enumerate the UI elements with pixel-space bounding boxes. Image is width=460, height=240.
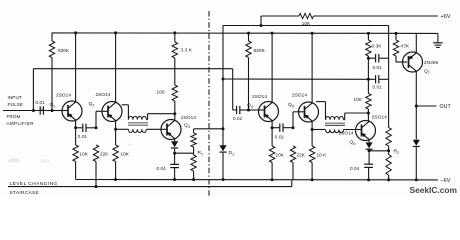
resistor R2 upper section (386, 128, 391, 147)
transformer T2 lower winding (326, 130, 344, 133)
transistor Q3 2SO14 (161, 120, 181, 140)
wire staircase output line (8, 186, 292, 188)
stage separator dash-dot line (208, 11, 210, 196)
wire R1 mid link (193, 147, 195, 155)
capacitor 0.04 stage1 (170, 163, 179, 165)
wire 22K-2 lead down (292, 163, 294, 180)
wire 0.04-2 to rail (368, 167, 370, 180)
svg-text:0.01: 0.01 (233, 116, 243, 121)
wire charge line y25 (223, 25, 389, 27)
svg-text:10K: 10K (121, 152, 130, 157)
transformer T2 upper winding (326, 117, 344, 120)
svg-text:0.04: 0.04 (157, 166, 167, 171)
node 10K-b rail dot (114, 178, 117, 181)
svg-text:STAIRCASE: STAIRCASE (10, 190, 40, 196)
wire R2 mid link (388, 146, 390, 155)
svg-text:10K: 10K (80, 152, 89, 157)
svg-text:22K: 22K (297, 153, 306, 158)
resistor 10K stage2-a (269, 146, 274, 163)
svg-text:47K: 47K (401, 44, 410, 49)
wire T2 secondary right lead (344, 129, 362, 131)
svg-text:3.3K: 3.3K (372, 44, 383, 49)
wire T1 secondary right lead (146, 128, 166, 130)
svg-text:2SO14: 2SO14 (181, 115, 196, 120)
transistor Q4 2SO14 (259, 102, 279, 122)
wire Q1 emitter drop (75, 120, 77, 145)
node base-riser junction stage1 (95, 126, 98, 129)
wire tap to 0.04 cap (174, 153, 176, 164)
resistor 47K lead (395, 33, 397, 40)
resistor 3.3K stage2 lead (367, 33, 369, 40)
wire OUT lead (416, 105, 436, 107)
capacitor 0.04 stage2 (364, 163, 373, 165)
svg-text:LEVEL CHANGING: LEVEL CHANGING (10, 181, 58, 187)
transformer T2 core (325, 122, 345, 124)
resistor 100 stage1 (172, 85, 177, 101)
wire stage feed line y68 (33, 68, 232, 70)
node R1 rail dot (192, 178, 195, 181)
resistor 47K (393, 40, 398, 56)
wire main ground rail (52, 32, 438, 35)
svg-text:2SO14: 2SO14 (96, 92, 111, 97)
wire 10K-a to rail (75, 162, 77, 180)
diode Q3 emitter diode (171, 141, 178, 147)
node D1 rail dot (222, 178, 225, 181)
node Q5 emitter/winding junction (311, 128, 314, 131)
wire Q2 emitter drop (115, 121, 117, 145)
wire diode to tap node (174, 149, 176, 154)
svg-text:OUT: OUT (440, 104, 452, 110)
node 47K rail dot (395, 32, 398, 35)
ground symbol stub (437, 33, 439, 42)
node 0.04 rail dot (173, 178, 176, 181)
svg-text:FROM: FROM (7, 114, 21, 119)
wire Q4 collector riser (271, 33, 273, 103)
svg-text:2SO14: 2SO14 (252, 94, 267, 99)
resistor 10K stage1-b (113, 145, 118, 162)
svg-text:0.01: 0.01 (373, 85, 383, 90)
resistor R1 lower section (191, 155, 196, 171)
node Q1 collector rail dot (74, 31, 77, 34)
wire 820K-2 to base node (248, 58, 250, 111)
node Q6 collector/winding junction (367, 112, 370, 115)
wire 22K lead to staircase line (95, 162, 97, 187)
node 10K-2b rail dot (311, 178, 314, 181)
wire Q6 diode to tap (368, 150, 370, 151)
wire T1 primary left lead (127, 105, 129, 120)
wire 820K to base node (51, 58, 53, 111)
node charge/cap-line junction (222, 78, 225, 81)
diode D1 (219, 145, 226, 151)
svg-text:2SO14: 2SO14 (339, 131, 354, 136)
resistor 820K stage1 (49, 41, 54, 58)
wire charge column x223 upper (222, 26, 224, 146)
node 820K-2 rail dot (247, 32, 250, 35)
svg-text:100: 100 (354, 97, 362, 102)
transistor Q6 2SO14 (356, 121, 376, 141)
transistor Q7 2N496 (403, 52, 423, 72)
svg-text:μ: μ (42, 106, 44, 110)
svg-text:820K: 820K (58, 48, 70, 53)
wire -6V bottom rail (76, 179, 438, 181)
node Q1 emitter/cap junction (74, 126, 77, 129)
node R2 tap dot (387, 149, 390, 152)
transformer T1 lower winding (128, 129, 146, 132)
wire Q4 emitter drop (271, 121, 273, 146)
wire Q7 collector drop (415, 71, 417, 140)
node 22K-1/staircase dot (95, 185, 98, 188)
wire Q3 emitter lead (174, 139, 176, 141)
ground symbol bar2 (435, 44, 442, 46)
capacitor 0.01 input stage1 (39, 106, 41, 114)
resistor 820K stage2 lead (248, 33, 250, 41)
wire Q4 base lead (249, 109, 265, 111)
node Q2 emitter/winding junction (114, 128, 117, 131)
node 820K-2/base junction (247, 109, 250, 112)
wire Q7 emitter riser (415, 33, 417, 53)
svg-text:0.01: 0.01 (275, 135, 285, 140)
wire T1 secondary left lead (116, 128, 129, 130)
node Q3 tap junction (173, 152, 176, 155)
transistor Q5 2SO14 (299, 102, 319, 122)
capacitor 0.01 coupling stage2 (279, 124, 281, 132)
svg-text:+6V: +6V (441, 14, 451, 20)
svg-text:100: 100 (157, 90, 165, 95)
wire R1 top elbow (194, 128, 223, 130)
svg-text:SeekIC.com: SeekIC.com (410, 185, 457, 195)
wire R2 to rail (388, 175, 390, 180)
node 3.3K rail dot (173, 31, 176, 34)
svg-text:0.01: 0.01 (373, 65, 383, 70)
wire Q2 base riser (95, 111, 97, 128)
wire tap line to R1 (175, 152, 194, 154)
resistor 820K R-a lead (51, 33, 53, 41)
wire 3.3K to 100 link (174, 58, 176, 85)
wire T1 upper right lead (146, 119, 147, 121)
svg-text:0.04: 0.04 (350, 166, 360, 171)
svg-text:0.01: 0.01 (36, 100, 46, 105)
svg-text:2N496: 2N496 (424, 60, 439, 65)
wire 100-2 to Q6 collector (367, 109, 369, 121)
scan smudge left 2 (40, 159, 50, 163)
wire D1 to rail (222, 153, 224, 180)
wire +6V top rail left segment (261, 15, 299, 17)
wire Q2 collector riser (115, 33, 117, 103)
node Q2 collector rail dot (114, 31, 117, 34)
wire +6V top rail right segment (314, 15, 439, 17)
wire 3.3K-2 down link (367, 56, 369, 94)
svg-text:10K: 10K (276, 153, 285, 158)
node R2 rail dot (387, 178, 390, 181)
wire 10K-b to rail (115, 162, 117, 180)
node base-riser junction stage2 (292, 126, 295, 129)
resistor 3.3K stage1 (172, 42, 177, 58)
wire output diode to rail (415, 147, 417, 180)
node junction charge line / 10K (260, 24, 263, 27)
diode output diode (413, 140, 420, 146)
resistor 10K stage1-a (73, 145, 78, 162)
node cap1 junction (367, 57, 370, 60)
wire T2 secondary left lead (312, 129, 325, 131)
svg-text:10 K: 10 K (317, 153, 328, 158)
node output diode rail dot (415, 178, 418, 181)
wire Q6 emitter lead (368, 140, 370, 143)
node y79/column dot (367, 78, 370, 81)
wire R2 column upper (388, 26, 390, 128)
svg-text:–6V: –6V (441, 178, 451, 184)
resistor 22K stage2 (290, 146, 295, 163)
wire Q5 emitter drop (311, 121, 313, 146)
wire 47K to Q7 base (395, 56, 397, 62)
transistor Q2 2SO14 (102, 102, 122, 122)
node charge/R1top junction (222, 127, 225, 130)
svg-text:820K: 820K (254, 48, 266, 53)
node input/feed junction (32, 109, 35, 112)
wire staircase elbow up (291, 180, 293, 187)
resistor R1 upper section (191, 133, 196, 147)
node Q5 collector rail dot (311, 32, 314, 35)
svg-text:INPUT: INPUT (8, 95, 22, 100)
svg-text:PULSE: PULSE (8, 102, 24, 107)
scan smudge left 1 (8, 158, 20, 162)
capacitor 0.01 coupling stage1 (82, 124, 84, 132)
node 0.04-2 rail dot (367, 178, 370, 181)
wire cap-line y79 (223, 78, 374, 80)
wire T2 primary left lead (325, 102, 327, 120)
svg-text:0.01: 0.01 (78, 134, 88, 139)
resistor 10K stage2-b (309, 146, 314, 163)
resistor 10K (top, horizontal) (299, 13, 314, 18)
node 3.3K-2 rail dot (367, 32, 370, 35)
node Q6 tap junction (368, 149, 371, 152)
wire Q1 collector riser (75, 33, 77, 102)
diode Q6 emitter diode (366, 142, 373, 148)
wire Q5 collector riser (311, 33, 313, 103)
node 820K/base junction (51, 109, 54, 112)
wire 10K-2b to rail (311, 163, 313, 180)
capacitor 0.01 lower (stage2) (375, 75, 377, 83)
scan smudge mid (127, 143, 133, 146)
svg-text:AMPLIFIER: AMPLIFIER (7, 121, 35, 126)
ground symbol bar3 (436, 46, 440, 48)
transistor Q1 2SO14 (62, 101, 82, 121)
svg-text:2SO14: 2SO14 (292, 93, 307, 98)
node Q4 emitter/cap junction (271, 126, 274, 129)
wire 0.04 to rail (174, 168, 176, 180)
node Q4 collector rail dot (271, 32, 274, 35)
svg-text:22K: 22K (100, 152, 109, 157)
resistor 100 stage2 (366, 94, 371, 110)
resistor R2 lower section (386, 155, 391, 176)
wire input feed riser (32, 69, 34, 111)
wire T2 upper right lead (344, 119, 345, 121)
wire input line (3, 110, 64, 112)
wire Q5 base riser (292, 112, 294, 128)
wire 10K drop to charge line (260, 16, 262, 26)
wire R1 to rail (193, 171, 195, 180)
wire Q1 base lead (52, 110, 68, 112)
resistor 3.3K stage2 (366, 40, 371, 56)
resistor 820K stage2 (246, 41, 251, 58)
wire 10K-2a to rail (271, 163, 273, 180)
resistor 22K stage1 (93, 145, 98, 162)
transformer T1 core (128, 122, 148, 124)
ground symbol bar1 (433, 42, 442, 44)
wire 100 to Q3 collector (174, 101, 176, 120)
wire tap line to R2 (369, 150, 389, 152)
node 10K-2a rail dot (271, 178, 274, 181)
svg-text:2SO14: 2SO14 (56, 93, 71, 98)
capacitor 0.01 upper (stage2) (375, 54, 377, 62)
svg-text:2SO14: 2SO14 (372, 114, 387, 119)
svg-text:3.3 K: 3.3 K (181, 48, 193, 53)
transformer T1 upper winding (128, 116, 146, 119)
wire stage2 feed drop (232, 69, 234, 110)
capacitor 0.01 input stage2 (236, 106, 238, 114)
resistor 3.3K stage1 lead (174, 33, 176, 42)
node OUT junction (415, 105, 418, 108)
wire tap to 0.04-2 (368, 151, 370, 164)
node Q3 collector/winding junction (173, 112, 176, 115)
